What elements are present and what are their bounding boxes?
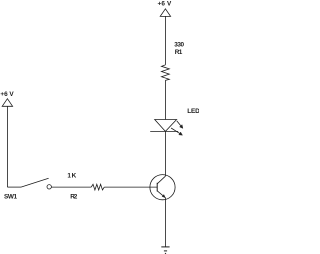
svg-text:+6 V: +6 V — [0, 91, 14, 98]
svg-text:+6 V: +6 V — [158, 1, 173, 8]
wire: right rail from +6V arrow to R1 top — [164, 16, 166, 65]
switch SW1 lever — [21, 178, 49, 187]
wire: R2 to transistor base — [104, 186, 157, 188]
ground symbol — [161, 246, 169, 248]
LED cathode bar — [150, 130, 178, 132]
wire: LED cathode to transistor collector — [164, 131, 166, 176]
svg-text:LED: LED — [187, 108, 199, 115]
switch SW1 contact circle — [47, 185, 51, 189]
svg-text:330: 330 — [174, 42, 184, 49]
svg-text:SW1: SW1 — [4, 194, 17, 201]
power arrow symbol (left +6V) — [2, 99, 12, 107]
transistor emitter lead — [157, 191, 165, 198]
wire: rail corner to switch pole — [7, 186, 21, 188]
svg-text:R2: R2 — [70, 193, 78, 200]
wire: switch contact to R2 — [51, 186, 91, 188]
wire: emitter to ground — [164, 198, 166, 247]
transistor Q1 circle — [150, 175, 175, 200]
transistor base bar — [156, 183, 158, 192]
svg-text:R1: R1 — [175, 49, 183, 56]
LED D1 triangle — [155, 120, 177, 132]
wire: left rail down to switch — [6, 106, 8, 187]
resistor R1 — [162, 65, 170, 81]
LED light arrow 1 — [177, 121, 181, 126]
svg-text:K: K — [72, 172, 77, 179]
resistor R2 — [91, 184, 104, 190]
transistor emitter arrowhead — [162, 194, 166, 198]
power arrow symbol (right +6V) — [160, 9, 170, 17]
wire: R1 bottom to LED anode — [164, 80, 166, 119]
LED light arrow 2 — [171, 128, 180, 134]
transistor collector lead — [157, 176, 165, 184]
